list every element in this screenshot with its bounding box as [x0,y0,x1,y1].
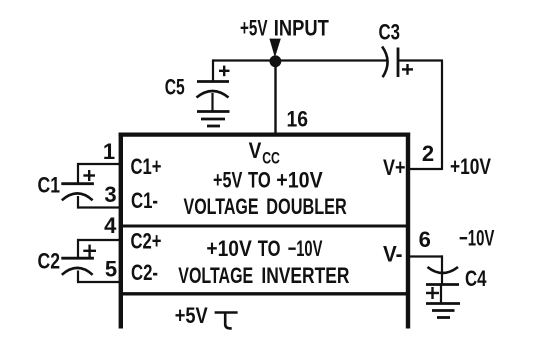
svg-text:DOUBLER: DOUBLER [266,194,347,219]
svg-text:VOLTAGE: VOLTAGE [178,263,253,288]
svg-text:INVERTER: INVERTER [261,263,349,288]
svg-text:C2-: C2- [131,260,158,285]
svg-text:6: 6 [419,227,431,252]
svg-text:2: 2 [422,141,434,166]
svg-text:VOLTAGE: VOLTAGE [184,194,259,219]
svg-text:+10V: +10V [206,236,252,261]
svg-text:C3: C3 [379,20,401,45]
svg-text:V: V [249,138,262,163]
svg-text:+10V: +10V [450,154,491,179]
svg-text:+10V: +10V [276,168,323,193]
svg-text:+5V: +5V [213,168,243,193]
svg-text:TO: TO [258,236,281,261]
svg-text:C2: C2 [38,249,61,274]
svg-text:C1: C1 [38,173,61,198]
svg-text:TO: TO [248,168,271,193]
svg-text:1: 1 [103,139,115,164]
svg-text:+5V: +5V [175,303,208,328]
svg-text:16: 16 [287,107,309,132]
svg-text:CC: CC [262,149,280,168]
svg-text:3: 3 [104,182,116,207]
svg-text:−10V: −10V [288,236,323,261]
svg-text:V-: V- [383,242,403,267]
svg-text:C2+: C2+ [131,229,162,254]
svg-text:C1+: C1+ [131,154,162,179]
svg-text:+5V: +5V [240,16,268,41]
svg-text:C4: C4 [465,266,487,291]
svg-text:−10V: −10V [459,226,495,251]
svg-text:5: 5 [105,257,117,282]
svg-text:INPUT: INPUT [274,16,329,41]
svg-text:C5: C5 [165,75,185,100]
svg-text:V+: V+ [383,155,406,180]
svg-text:C1-: C1- [131,188,158,213]
svg-text:4: 4 [104,213,117,238]
